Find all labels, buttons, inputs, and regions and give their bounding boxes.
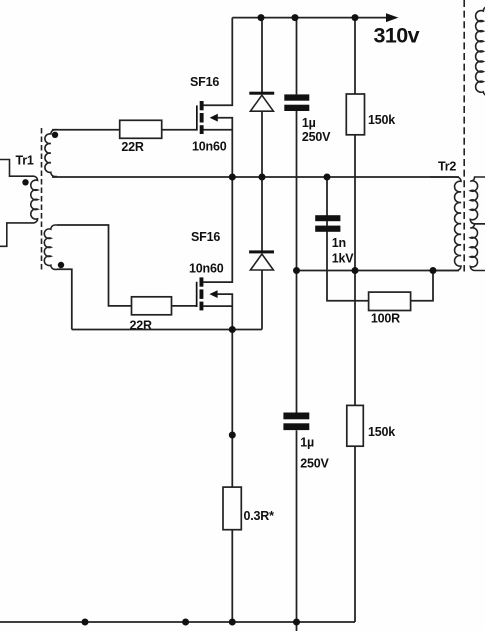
wire: 150k column (bottom) [354, 271, 356, 623]
svg-text:22R: 22R [121, 140, 144, 154]
Tr2 top secondary winding [476, 7, 485, 96]
junction dot 0V rail/shunt [229, 619, 236, 626]
resistor R1 22R (upper) [120, 120, 162, 138]
svg-text:1µ: 1µ [300, 435, 314, 449]
junction dot bus/D1 [259, 174, 266, 181]
junction dot 0V rail b [182, 619, 189, 626]
wire: Q2 body to source column [217, 294, 233, 329]
diode D1 triangle [250, 95, 273, 111]
capacitor C3 1u 250V plates [283, 413, 309, 420]
wire: capacitor C1 column top [296, 18, 298, 271]
svg-text:10n60: 10n60 [189, 262, 224, 276]
Tr1 lower secondary winding [44, 225, 57, 269]
Q2 channel bar body [200, 289, 204, 299]
junction dot rail/C1 [292, 14, 299, 21]
wire: Tr1 lower secondary return [57, 269, 72, 329]
Tr1 primary dot [22, 179, 28, 185]
wire: source return to Q2/diode [72, 329, 262, 331]
capacitor C2 1n 1kV plates [315, 215, 340, 221]
svg-text:Tr2: Tr2 [438, 160, 456, 174]
Tr1 upper secondary winding [45, 130, 57, 177]
Q2 gate line [196, 282, 198, 307]
arrowhead of 310v rail [386, 13, 398, 22]
junction dot midpoint/C column [293, 267, 300, 274]
svg-text:Tr1: Tr1 [16, 154, 34, 168]
Q2 channel bar drain [200, 277, 204, 286]
Tr1 upper secondary dot [52, 132, 58, 138]
wire: Q1 source bar to column [204, 129, 233, 131]
junction dot Q2 source/return [229, 326, 236, 333]
resistor R2 150k (top) [346, 94, 364, 135]
junction dot bus/Q1 source [229, 174, 236, 181]
wire: capacitor column bottom half [296, 271, 298, 631]
junction dot rail/150k [352, 14, 359, 21]
Q1 channel bar drain [200, 101, 204, 110]
svg-text:1kV: 1kV [332, 251, 355, 265]
Tr2 secondary lower winding [470, 224, 485, 271]
transformer Tr2 core (dashed) [463, 0, 465, 272]
wire: Q1 body/source to switch node column [217, 118, 232, 177]
wire: Tr1 lower secondary to Q2 gate via 22R [57, 225, 197, 306]
transistor Q2 (lower MOSFET 10n60) [196, 277, 218, 310]
transistor Q1 (upper MOSFET 10n60) [196, 101, 218, 134]
svg-text:0.3R*: 0.3R* [244, 509, 275, 523]
svg-text:250V: 250V [302, 130, 331, 144]
Q1 body arrow [210, 114, 218, 122]
diode D1 SF16 (upper) cathode bar [249, 92, 274, 95]
wire: switch-node bus [52, 176, 459, 178]
junction dot bus/snubber [324, 174, 331, 181]
Q1 channel bar body [200, 113, 204, 123]
junction dot rail/diode [258, 14, 265, 21]
svg-text:250V: 250V [300, 457, 329, 471]
Q2 body arrow [209, 290, 217, 298]
svg-text:150k: 150k [368, 113, 395, 127]
svg-text:10n60: 10n60 [192, 140, 227, 154]
Q1 channel bar source [200, 125, 204, 134]
wire: rail down to Q1 drain [204, 18, 233, 106]
diode D2 triangle [250, 254, 273, 270]
svg-text:SF16: SF16 [190, 75, 219, 89]
wire: Q2 source bar to column [203, 305, 232, 307]
capacitor C1 1u 250V plates [284, 94, 309, 100]
resistor R4 0.3R* shunt [223, 487, 241, 530]
Q2 channel bar source [200, 302, 204, 311]
wire: snubber 1n/100R branch [327, 177, 433, 301]
junction dot shunt column [229, 432, 236, 439]
svg-text:150k: 150k [368, 425, 395, 439]
Tr1 primary winding (left) [0, 160, 38, 247]
wire: gate wire from Tr1 to Q1 through R 22R [52, 129, 197, 131]
diode D2 SF16 (lower) cathode bar [249, 250, 274, 253]
wire: 150k column (top) [354, 18, 356, 271]
svg-text:SF16: SF16 [191, 230, 220, 244]
svg-text:310v: 310v [374, 23, 420, 47]
wire: bottom 0V rail [0, 621, 355, 623]
wire: upper diode column [261, 18, 263, 177]
wire: top +310v rail [232, 17, 387, 19]
junction dot midpoint/150k [352, 267, 359, 274]
resistor R5 100R [369, 292, 411, 310]
wire: lower diode column [261, 177, 263, 330]
junction dot 0V rail/C3 [293, 619, 300, 626]
transformer Tr1 core (dashed) [41, 128, 43, 270]
resistor R6 150k (bottom) [347, 405, 364, 446]
svg-text:100R: 100R [371, 311, 400, 325]
wire: mid-point bus [297, 270, 460, 272]
Tr2 secondary upper winding [470, 177, 485, 224]
junction dot 0V rail a [82, 619, 89, 626]
svg-text:1n: 1n [332, 236, 346, 250]
Tr2 primary winding [430, 177, 461, 271]
wire: source column down through shunt to 0V rail [231, 330, 233, 623]
svg-text:1µ: 1µ [302, 116, 316, 130]
Q1 gate line [196, 105, 198, 130]
wire: bus down to Q2 drain [203, 177, 232, 282]
Tr1 lower secondary dot [58, 262, 64, 268]
junction dot midpoint/100R [430, 267, 437, 274]
resistor R3 22R (lower) [132, 297, 172, 315]
